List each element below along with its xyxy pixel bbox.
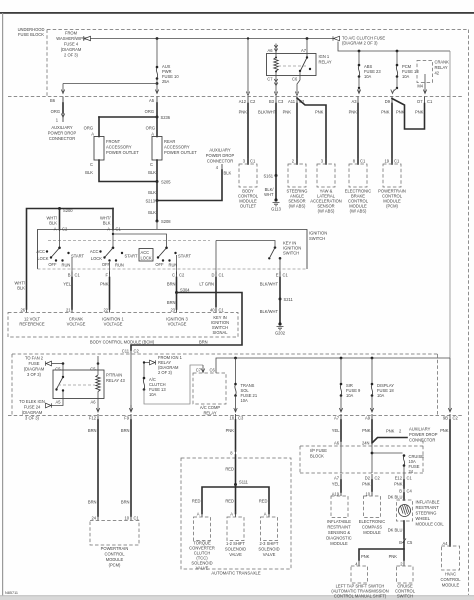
svg-text:S208: S208 <box>161 219 171 224</box>
svg-text:(DIAGRAM: (DIAGRAM <box>22 410 43 415</box>
svg-text:C2: C2 <box>62 227 68 232</box>
svg-text:BRN: BRN <box>88 500 97 505</box>
wire: branch left to front outlet <box>99 116 157 118</box>
ignition switch pole 3 <box>165 247 168 250</box>
svg-text:2 OF 3): 2 OF 3) <box>158 370 173 375</box>
svg-text:BLK: BLK <box>85 170 93 175</box>
wire YEL A7 to A6 <box>340 420 342 441</box>
svg-text:ORG: ORG <box>84 126 93 131</box>
dashed box edges <box>12 353 438 355</box>
svg-text:21: 21 <box>66 308 71 313</box>
svg-text:19: 19 <box>384 159 389 164</box>
svg-text:REAR: REAR <box>164 139 175 144</box>
svg-text:RED: RED <box>259 499 268 504</box>
svg-text:D2: D2 <box>365 476 371 481</box>
svg-text:C6: C6 <box>210 368 216 373</box>
wire PNK to coil B C4 <box>403 480 405 488</box>
ground G202 <box>278 322 281 325</box>
svg-text:FUSE 4: FUSE 4 <box>64 42 79 47</box>
wire BLK/WHT S161 to G113 <box>275 176 277 200</box>
relay 43 mech link <box>58 384 95 386</box>
svg-text:C1: C1 <box>219 308 225 313</box>
svg-text:ACC: ACC <box>90 249 99 254</box>
svg-text:C: C <box>150 162 153 167</box>
svg-text:A5: A5 <box>149 98 155 103</box>
svg-text:C1: C1 <box>283 273 289 278</box>
pole 3 feed jumper from pole 2 <box>112 233 114 235</box>
wire: fuse down and left to B6 <box>156 79 158 84</box>
svg-text:C4: C4 <box>407 489 413 494</box>
svg-text:A7: A7 <box>334 416 340 421</box>
svg-text:C5: C5 <box>90 367 96 372</box>
wire DK BLU into coil <box>403 493 405 500</box>
node S111 <box>234 483 237 486</box>
fuse: PCM FUSE 18 10A <box>396 51 398 64</box>
svg-text:PNK: PNK <box>283 110 292 115</box>
wire: BCM 12V ref up and over to switch feeds (S200 line) <box>27 209 114 310</box>
svg-text:RELAY: RELAY <box>203 411 216 416</box>
wire C6 up to I/P bus <box>216 358 450 373</box>
svg-text:BLK: BLK <box>148 170 156 175</box>
svg-text:B: B <box>399 489 402 494</box>
wire BLK/WHT B3 to S161 <box>275 104 277 176</box>
long grey feed line right side down to I/P fuse block <box>449 51 451 358</box>
svg-text:MODULE: MODULE <box>442 583 460 588</box>
node S200 <box>58 207 61 210</box>
node S161 <box>275 174 278 177</box>
wire PNK D7 jog joining D9 wire <box>392 99 425 130</box>
wire ORG down to S236 <box>156 103 158 117</box>
svg-text:VALVE: VALVE <box>196 566 209 571</box>
svg-text:C2: C2 <box>134 349 140 354</box>
svg-text:D: D <box>212 273 215 278</box>
svg-text:C6: C6 <box>292 77 298 82</box>
wire PNK D9 to PCM <box>391 104 393 165</box>
svg-text:ACC: ACC <box>141 250 150 255</box>
svg-text:F9: F9 <box>124 416 130 421</box>
svg-text:C5: C5 <box>407 540 413 545</box>
mechanical link dashed line <box>48 240 210 242</box>
svg-text:START: START <box>125 254 139 259</box>
wire from fan2 arrow to relay left post <box>52 363 64 365</box>
svg-text:C: C <box>172 273 175 278</box>
svg-text:BRN: BRN <box>167 300 176 305</box>
wire BLK/WHT pin E to S211 <box>279 278 281 300</box>
svg-text:C1: C1 <box>407 476 413 481</box>
svg-text:A6: A6 <box>90 400 96 405</box>
wire splits to shift switch and cruise switch <box>359 541 404 560</box>
node S208 <box>156 220 159 223</box>
svg-text:WHEEL: WHEEL <box>416 516 431 521</box>
svg-text:WASHER/WIPE: WASHER/WIPE <box>56 36 86 41</box>
svg-text:M4: M4 <box>417 84 423 89</box>
wire: bus down to aux pwr fuse 10 <box>156 39 158 67</box>
wire to cruise fuse <box>372 452 403 454</box>
svg-text:YEL: YEL <box>332 482 340 487</box>
wire PNK A11 branch to yaw sensor (staircase) <box>297 98 326 164</box>
wire cruise fuse down to E12 C1 <box>403 466 405 475</box>
svg-text:18: 18 <box>229 416 234 421</box>
a/c comp relay dashed box <box>193 373 226 404</box>
svg-text:IGN 1: IGN 1 <box>319 54 330 59</box>
connector arrow from washer/wipe <box>84 36 91 41</box>
svg-text:CONNECTOR: CONNECTOR <box>49 136 75 141</box>
fuse: CRUISE FUSE 24 10A <box>403 454 406 457</box>
svg-text:BRN: BRN <box>88 428 97 433</box>
svg-text:A: A <box>107 227 110 232</box>
svg-text:DK BLU: DK BLU <box>388 528 403 533</box>
svg-text:WHT: WHT <box>264 192 274 197</box>
svg-text:10A: 10A <box>402 74 410 79</box>
svg-text:24N: 24N <box>362 441 370 446</box>
svg-text:BLK: BLK <box>148 210 156 215</box>
svg-text:C1: C1 <box>360 159 366 164</box>
wire YEL pole1 to BCM 21 <box>71 278 73 310</box>
svg-text:S211: S211 <box>284 297 294 302</box>
svg-text:RUN: RUN <box>62 263 71 268</box>
svg-text:C2: C2 <box>250 99 256 104</box>
svg-text:RED: RED <box>192 499 201 504</box>
wire PNK A3 to EBCM <box>357 104 359 165</box>
node S304 <box>175 291 178 294</box>
wire: line end down to pole2 feed pin A C1 <box>112 209 114 230</box>
top border bar <box>0 12 474 14</box>
svg-text:A/C COMP: A/C COMP <box>200 405 221 410</box>
svg-text:A: A <box>91 132 94 137</box>
svg-text:A4: A4 <box>442 541 448 546</box>
fuse: ABS FUSE 23 10A <box>358 51 360 64</box>
HVAC control module <box>442 546 460 570</box>
svg-text:AUXILIARY: AUXILIARY <box>409 427 431 432</box>
svg-text:C7: C7 <box>267 77 273 82</box>
svg-text:(DIAGRAM 2 OF 3): (DIAGRAM 2 OF 3) <box>342 41 378 46</box>
svg-text:RELAY 43: RELAY 43 <box>106 378 125 383</box>
svg-text:C7: C7 <box>196 368 202 373</box>
svg-text:2 OF 3): 2 OF 3) <box>64 53 79 58</box>
svg-text:I/P FUSE: I/P FUSE <box>310 448 327 453</box>
svg-text:ORG: ORG <box>145 109 154 114</box>
svg-text:CONNECTOR: CONNECTOR <box>409 438 435 443</box>
svg-text:BLK: BLK <box>17 286 25 291</box>
svg-text:A: A <box>54 227 57 232</box>
pin F9 <box>129 405 132 412</box>
svg-text:C1: C1 <box>250 159 256 164</box>
svg-text:PNK: PNK <box>381 110 390 115</box>
svg-text:PNK: PNK <box>239 110 248 115</box>
svg-text:PNK: PNK <box>315 110 324 115</box>
svg-text:INFLATABLE: INFLATABLE <box>416 500 440 505</box>
main feed wire (top bus) <box>90 38 333 40</box>
wire BLK S205 to S213 <box>156 182 158 201</box>
PCM dashed box (bottom left) <box>90 521 139 546</box>
svg-text:C5: C5 <box>55 367 61 372</box>
ignition switch box <box>38 230 308 270</box>
svg-text:B: B <box>68 273 71 278</box>
svg-text:PNK: PNK <box>386 429 395 434</box>
svg-text:(W/ ABS): (W/ ABS) <box>318 209 335 214</box>
svg-text:YEL: YEL <box>332 428 340 433</box>
svg-text:RED: RED <box>225 499 234 504</box>
svg-text:PNK: PNK <box>396 110 405 115</box>
svg-text:(W/ ABS): (W/ ABS) <box>350 209 367 214</box>
svg-text:C1: C1 <box>75 273 81 278</box>
electronic compass module <box>364 496 381 518</box>
svg-text:CONTROL: CONTROL <box>104 552 125 557</box>
svg-text:LOCK: LOCK <box>91 256 102 261</box>
svg-text:POWER DROP: POWER DROP <box>48 131 77 136</box>
fuse: TRANS SOL FUSE 21 10A <box>235 358 237 383</box>
relay coil <box>275 57 277 59</box>
wire: S200 down to pole1 feed pin A C2 <box>59 209 61 230</box>
fuse: SIR FUSE 9 10A <box>340 358 342 383</box>
inflatable restraint steering wheel module coil <box>397 500 413 521</box>
svg-text:RESTRAINT: RESTRAINT <box>327 525 351 530</box>
svg-text:9B: 9B <box>443 416 448 421</box>
ign 1 relay box <box>267 54 317 76</box>
svg-text:24: 24 <box>91 516 96 521</box>
ignition switch pole 1 <box>59 230 61 248</box>
fuse: A/C CLUTCH FUSE 13 10A <box>143 377 146 380</box>
svg-text:26: 26 <box>20 308 25 313</box>
wire A5 to elek ign arrow <box>52 399 64 406</box>
svg-text:VOLTAGE: VOLTAGE <box>67 322 86 327</box>
svg-text:C2: C2 <box>375 476 381 481</box>
svg-text:S161: S161 <box>263 174 273 179</box>
svg-text:A5: A5 <box>55 400 61 405</box>
wire PNK A9 down to 24N C1 <box>371 420 373 442</box>
svg-text:INFLATABLE: INFLATABLE <box>327 519 351 524</box>
wire PNK to transaxle pin 8 <box>235 420 237 451</box>
wire BRN branch S304 right and down to C11 C2 <box>131 293 242 351</box>
svg-text:BLK: BLK <box>103 221 111 226</box>
inflatable restraint sensing and diagnostic module <box>331 496 348 518</box>
wire: bus corner down to 9B C2 <box>448 358 451 412</box>
svg-text:A: A <box>264 512 267 517</box>
wire BLK S213 to S208 <box>156 201 158 222</box>
svg-text:RUN: RUN <box>169 263 178 268</box>
svg-text:C2: C2 <box>453 416 459 421</box>
wire LT GRN from key-in left down to BCM 40 <box>215 241 217 275</box>
svg-text:SOLENOID: SOLENOID <box>258 547 279 552</box>
svg-text:PNK: PNK <box>361 554 370 559</box>
wire continues down to cruise fuse tap <box>371 443 373 473</box>
ignition switch pole 2 <box>112 230 114 248</box>
svg-text:(PCM): (PCM) <box>109 563 121 568</box>
svg-text:CRANK: CRANK <box>435 60 450 65</box>
svg-text:A11: A11 <box>288 99 296 104</box>
svg-text:BLK/WHT: BLK/WHT <box>260 282 279 287</box>
svg-text:BRN: BRN <box>167 282 176 287</box>
node: bus tap trans sol fuse <box>234 357 237 360</box>
svg-text:CONTROL: CONTROL <box>440 577 461 582</box>
left page edge line <box>2 13 3 600</box>
svg-text:LOCK: LOCK <box>37 256 48 261</box>
svg-text:BLK: BLK <box>49 221 57 226</box>
ground G113 <box>274 198 277 201</box>
svg-text:10A: 10A <box>364 74 372 79</box>
svg-text:AUTOMATIC TRANSAXLE: AUTOMATIC TRANSAXLE <box>211 571 260 576</box>
svg-text:CONTROL MANUAL SHIFT): CONTROL MANUAL SHIFT) <box>334 594 387 599</box>
svg-text:24: 24 <box>409 469 414 474</box>
svg-text:POWER OUTLET: POWER OUTLET <box>106 150 139 155</box>
svg-text:PNK: PNK <box>100 282 109 287</box>
svg-text:D7: D7 <box>417 99 423 104</box>
svg-text:N85711: N85711 <box>5 591 18 595</box>
svg-text:CONNECTOR: CONNECTOR <box>207 159 233 164</box>
svg-text:PNK: PNK <box>394 482 403 487</box>
svg-text:42: 42 <box>435 71 440 76</box>
svg-text:C1: C1 <box>134 516 140 521</box>
svg-text:C1: C1 <box>394 159 400 164</box>
svg-text:YEL: YEL <box>63 282 71 287</box>
svg-text:BRN: BRN <box>121 500 130 505</box>
svg-text:POWER OUTLET: POWER OUTLET <box>164 150 197 155</box>
svg-text:ACCESSORY: ACCESSORY <box>106 145 132 150</box>
svg-text:C1: C1 <box>116 227 122 232</box>
svg-text:SWITCH: SWITCH <box>397 594 413 599</box>
svg-text:P/TRAIN: P/TRAIN <box>106 373 122 378</box>
fuse: AUX PWR FUSE 10 25A <box>156 66 159 69</box>
svg-text:FROM: FROM <box>65 31 78 36</box>
svg-text:TO FAN 2: TO FAN 2 <box>25 356 44 361</box>
svg-text:VOLTAGE: VOLTAGE <box>104 322 123 327</box>
svg-text:REFERENCE: REFERENCE <box>19 322 45 327</box>
svg-text:RELAY: RELAY <box>319 60 332 65</box>
svg-text:ACC: ACC <box>36 249 45 254</box>
wire PNK A12 to BCM outlet <box>247 104 249 165</box>
svg-text:C1: C1 <box>219 273 225 278</box>
svg-text:B6: B6 <box>50 98 56 103</box>
node: bus tap to aux pwr fuse <box>156 37 159 40</box>
svg-text:10A: 10A <box>377 393 385 398</box>
wire RED to S111 <box>235 455 237 485</box>
svg-text:COMPASS: COMPASS <box>362 525 382 530</box>
svg-text:RELAY: RELAY <box>435 65 448 70</box>
I/P fuse block label and dashed rows <box>300 445 423 447</box>
svg-text:PNK: PNK <box>440 428 449 433</box>
svg-text:A: A <box>197 512 200 517</box>
svg-text:S205: S205 <box>161 180 171 185</box>
svg-text:A7: A7 <box>301 48 307 53</box>
svg-text:C3: C3 <box>238 416 244 421</box>
wire stub below S208 <box>156 221 158 229</box>
solenoid feed bus <box>202 487 269 514</box>
svg-text:START: START <box>178 254 192 259</box>
svg-text:A7: A7 <box>334 476 340 481</box>
svg-text:SWITCH: SWITCH <box>283 251 299 256</box>
svg-text:C2: C2 <box>179 273 185 278</box>
svg-text:PNK: PNK <box>389 554 398 559</box>
svg-text:3 OF 3): 3 OF 3) <box>25 416 40 421</box>
svg-text:BRN: BRN <box>199 340 208 345</box>
svg-text:VALVE: VALVE <box>229 552 242 557</box>
svg-text:SOLENOID: SOLENOID <box>225 547 246 552</box>
wire: bus down to A12 pin <box>247 39 249 94</box>
arrow: to A/C clutch fuse <box>333 36 340 41</box>
svg-text:PNK: PNK <box>362 482 371 487</box>
svg-text:FRONT: FRONT <box>106 139 121 144</box>
svg-text:B: B <box>399 540 402 545</box>
svg-text:ACCESSORY: ACCESSORY <box>164 145 190 150</box>
svg-text:AUXILIARY: AUXILIARY <box>209 148 231 153</box>
from ign 1 relay arrow <box>150 360 156 365</box>
svg-text:MODULE: MODULE <box>330 541 348 546</box>
svg-text:ELECTRONIC: ELECTRONIC <box>359 519 385 524</box>
svg-text:40: 40 <box>210 308 215 313</box>
svg-text:3 OF 3): 3 OF 3) <box>27 372 42 377</box>
svg-text:LT GRN: LT GRN <box>199 282 214 287</box>
svg-text:LOCK: LOCK <box>141 256 152 261</box>
svg-text:(PCM): (PCM) <box>386 204 398 209</box>
crank relay M4 post <box>424 74 426 83</box>
wire BRN S304 to BCM 23 <box>176 293 178 310</box>
wire BLK/WHT S211 to G202 <box>279 299 281 323</box>
svg-text:FUSE BLOCK: FUSE BLOCK <box>18 32 44 37</box>
svg-text:10A: 10A <box>241 398 249 403</box>
connector entry arrows pin row <box>246 92 298 96</box>
svg-text:BRN: BRN <box>121 428 130 433</box>
svg-text:C11: C11 <box>122 349 130 354</box>
wire: right feed line y51 <box>338 42 450 52</box>
svg-text:C1: C1 <box>427 99 433 104</box>
svg-text:POWER DROP: POWER DROP <box>206 153 235 158</box>
svg-text:BODY CONTROL MODULE (BCM): BODY CONTROL MODULE (BCM) <box>90 340 155 345</box>
wire PNK A11 to steering angle sensor <box>296 104 298 165</box>
wire YEL to SDM A19 <box>340 480 342 492</box>
wire through block to A7 <box>340 445 342 473</box>
svg-text:PNK: PNK <box>226 428 235 433</box>
svg-text:POWER DROP: POWER DROP <box>409 432 438 437</box>
svg-text:22: 22 <box>103 308 108 313</box>
svg-text:ORG: ORG <box>146 126 155 131</box>
svg-text:MODULE: MODULE <box>363 530 381 535</box>
svg-text:E12: E12 <box>395 476 403 481</box>
svg-text:AUXILIARY: AUXILIARY <box>51 125 73 130</box>
p/train relay 43 <box>62 362 65 365</box>
svg-text:STEERING: STEERING <box>416 511 437 516</box>
wire C11 down to F9 <box>130 354 132 413</box>
svg-text:F12: F12 <box>89 416 97 421</box>
underhood fuse block dashed box <box>47 29 469 31</box>
front accessory power outlet <box>94 137 104 161</box>
wire A6 down to F12 <box>96 399 99 413</box>
svg-text:A6: A6 <box>334 441 340 446</box>
svg-text:SWITCH: SWITCH <box>309 236 325 241</box>
svg-text:A: A <box>230 512 233 517</box>
svg-text:C3: C3 <box>278 99 284 104</box>
svg-text:DIAGNOSTIC: DIAGNOSTIC <box>326 536 352 541</box>
svg-text:23: 23 <box>170 308 175 313</box>
svg-text:POWERTRAIN: POWERTRAIN <box>101 546 129 551</box>
bottom page grey bar <box>0 596 474 600</box>
relay mech dashed link <box>278 65 306 67</box>
right page dashed border <box>468 30 470 596</box>
wire PNK to compass module 10 <box>371 480 373 491</box>
svg-text:OFF: OFF <box>155 262 164 267</box>
svg-text:G202: G202 <box>275 331 286 336</box>
svg-text:RESTRAINT: RESTRAINT <box>416 505 440 510</box>
svg-text:OFF: OFF <box>48 262 57 267</box>
rear accessory power outlet <box>152 137 162 161</box>
svg-text:2-3 SHIFT: 2-3 SHIFT <box>260 541 279 546</box>
svg-text:RED: RED <box>225 467 234 472</box>
fuse: DISPLAY FUSE 18 10A <box>371 358 373 383</box>
relay switch arm <box>306 56 308 58</box>
node: cruise fuse tap <box>371 452 374 455</box>
wire PNK 9B C2 down to HVAC A4 <box>449 420 451 546</box>
svg-text:VOLTAGE: VOLTAGE <box>168 322 187 327</box>
svg-text:SIGNAL: SIGNAL <box>212 330 228 335</box>
